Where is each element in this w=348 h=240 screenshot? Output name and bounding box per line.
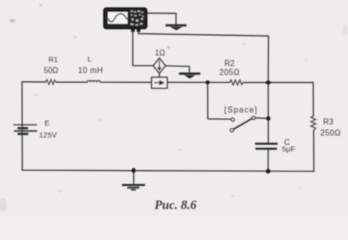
svg-text:R3: R3 [323, 118, 334, 127]
svg-text:10 mH: 10 mH [78, 66, 103, 75]
svg-text:[Space]: [Space] [224, 105, 257, 114]
svg-text:250Ω: 250Ω [320, 129, 341, 138]
svg-text:R1: R1 [48, 55, 57, 64]
svg-text:50Ω: 50Ω [44, 66, 59, 75]
svg-text:L: L [87, 55, 91, 64]
svg-text:R2: R2 [224, 59, 235, 68]
svg-text:Рис. 8.6: Рис. 8.6 [154, 198, 197, 212]
svg-text:5μF: 5μF [282, 144, 295, 153]
svg-text:E: E [45, 118, 50, 127]
svg-text:125V: 125V [39, 130, 57, 139]
svg-text:1Ω: 1Ω [155, 49, 165, 58]
svg-text:205Ω: 205Ω [219, 68, 240, 77]
